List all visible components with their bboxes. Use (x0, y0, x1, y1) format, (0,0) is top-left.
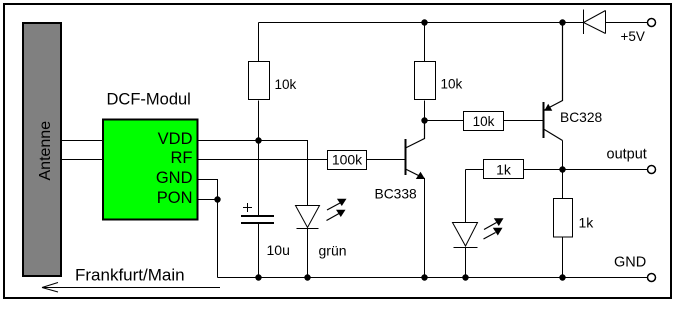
svg-text:Frankfurt/Main: Frankfurt/Main (75, 266, 185, 285)
svg-text:VDD: VDD (158, 130, 193, 148)
wire 1k to output node (524, 169, 563, 171)
svg-text:+5V: +5V (621, 29, 645, 44)
LED D1 green (296, 206, 320, 229)
wire capacitor to ground rail (258, 223, 260, 278)
wire output node to terminal (563, 169, 648, 171)
svg-text:RF: RF (171, 149, 193, 167)
svg-text:PON: PON (157, 189, 193, 207)
resistor R3 box (464, 112, 504, 131)
terminal output (648, 166, 656, 174)
resistor R6 box (1k horizontal) (484, 160, 524, 179)
resistor R1 box (249, 62, 270, 100)
wire top rail to R1 (258, 23, 260, 62)
arrow Frankfurt direction (42, 283, 220, 293)
LED D2 (453, 223, 478, 248)
wire R3 to BC328 base (504, 120, 544, 122)
node junction PON (214, 196, 220, 202)
wire 1k to LED2 (466, 170, 484, 223)
resistor R5 box (1k vertical) (554, 199, 573, 238)
LED D2 arrows (484, 218, 504, 239)
svg-text:1k: 1k (579, 215, 595, 231)
wire node B to R3 (425, 120, 464, 122)
svg-text:DCF-Modul: DCF-Modul (107, 91, 191, 109)
transistor Q1 BC338 (406, 121, 425, 179)
wire VDD pin to LED corner (198, 141, 308, 206)
node junction gnd LED2 (462, 274, 468, 280)
wire diode to +5V terminal (606, 22, 648, 24)
resistor R2 box (415, 62, 436, 100)
wire output node to R5 (562, 170, 564, 199)
wire GND pin down (198, 180, 218, 278)
node junction gnd LED1 (304, 274, 310, 280)
wire top rail to R2 (424, 23, 426, 62)
svg-text:BC328: BC328 (560, 110, 603, 125)
wire BC338 emitter down (424, 178, 426, 278)
wire top rail (259, 22, 584, 24)
node junction gnd C1 (255, 274, 261, 280)
wire antenna to VDD pin (61, 140, 103, 142)
wire LED1 cathode down (307, 229, 309, 278)
svg-text:10k: 10k (441, 77, 463, 92)
svg-text:10u: 10u (267, 242, 290, 258)
diode D3 (584, 10, 606, 35)
LED D1 arrows (327, 199, 347, 221)
node junction B (421, 117, 427, 123)
wire VDD node to capacitor (258, 141, 260, 216)
wire LED2 cathode down (465, 248, 467, 278)
wire RF pin to 100k (198, 159, 328, 161)
node junction gnd Q1 (421, 274, 427, 280)
svg-text:grün: grün (319, 243, 347, 259)
terminal GND (648, 274, 656, 282)
svg-text:100k: 100k (332, 152, 363, 168)
node junction gnd R5 (559, 274, 565, 280)
capacitor plus sign (243, 203, 252, 212)
wire ground rail (218, 277, 648, 279)
transistor Q2 emitter arrow (544, 104, 552, 111)
svg-text:10k: 10k (275, 77, 297, 92)
wire R1 to VDD node (258, 101, 260, 141)
transistor Q2 BC328 (544, 23, 563, 141)
svg-text:1k: 1k (496, 162, 512, 178)
svg-text:Antenne: Antenne (37, 121, 54, 181)
svg-text:output: output (607, 147, 647, 163)
wire antenna to RF pin (61, 159, 103, 161)
resistor R4 box (100k) (328, 151, 367, 170)
wire PON pin (198, 199, 218, 201)
transistor Q1 emitter arrow (416, 172, 425, 179)
wire R2 to node B (424, 101, 426, 121)
border frame (3, 3, 672, 5)
DCF module body (103, 120, 198, 220)
wire 100k to BC338 base (367, 159, 406, 161)
node junction output (559, 166, 565, 172)
svg-text:GND: GND (156, 169, 193, 187)
node junction VDD/R1 (255, 137, 261, 143)
antenna bar (23, 23, 61, 276)
node junction top rail BC328 (559, 19, 565, 25)
node junction top rail R2 (421, 19, 427, 25)
svg-text:10k: 10k (473, 114, 495, 129)
wire R5 to ground rail (562, 237, 564, 278)
terminal +5V (648, 19, 656, 27)
svg-text:BC338: BC338 (375, 187, 418, 202)
wire BC328 collector to output node (562, 141, 564, 170)
capacitor C1 (241, 216, 274, 223)
svg-text:GND: GND (614, 255, 646, 271)
